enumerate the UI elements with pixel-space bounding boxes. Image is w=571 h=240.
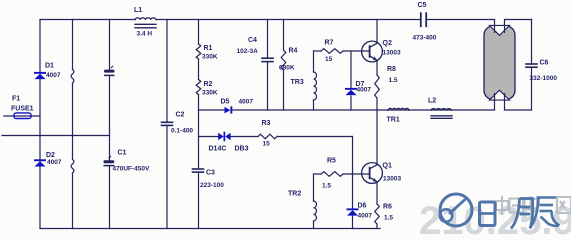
wire line2 corner down bbox=[352, 137, 354, 175]
diode D1 bbox=[34, 72, 46, 79]
svg-text:473-400: 473-400 bbox=[413, 35, 437, 42]
lamp top filament notch bbox=[490, 25, 510, 35]
svg-text:C6: C6 bbox=[540, 60, 549, 67]
svg-text:1.5: 1.5 bbox=[389, 77, 398, 84]
svg-text:0.1-400: 0.1-400 bbox=[171, 128, 193, 135]
wire top bus left bbox=[40, 19, 135, 21]
svg-text:D14C: D14C bbox=[209, 146, 227, 153]
svg-text:D6: D6 bbox=[358, 203, 367, 210]
wire R6 to bottom bus bbox=[376, 224, 378, 229]
inductor TR1 winding bbox=[388, 108, 409, 110]
watermark logo circle bbox=[440, 194, 472, 226]
svg-text:TR3: TR3 bbox=[291, 79, 304, 86]
diode D5 bbox=[225, 106, 233, 113]
svg-text:DB3: DB3 bbox=[235, 146, 249, 153]
capacitor electrolytic upper plates bbox=[104, 66, 115, 76]
wire AC line 2 bbox=[2, 135, 110, 137]
wire C2 vertical bbox=[166, 20, 168, 123]
svg-text:330K: 330K bbox=[202, 90, 218, 97]
svg-text:15: 15 bbox=[325, 56, 333, 63]
capacitor C2 plates bbox=[162, 121, 173, 123]
resistor R6 zigzag bbox=[375, 204, 380, 224]
diode D7 bbox=[345, 88, 357, 95]
capacitor C4 plates bbox=[262, 57, 273, 59]
inductor L2 winding bbox=[431, 109, 451, 111]
wire mid rail y110 right bbox=[505, 109, 532, 111]
svg-text:15: 15 bbox=[263, 141, 271, 148]
wire D7 branch bbox=[350, 51, 352, 88]
wire Q1 base line bbox=[314, 173, 322, 175]
resistor R1 zigzag bbox=[196, 44, 201, 59]
wire D6 branch bbox=[352, 174, 354, 208]
svg-text:R2: R2 bbox=[204, 81, 213, 88]
svg-text:680K: 680K bbox=[279, 65, 295, 72]
inductor L2 core bars bbox=[431, 115, 452, 117]
svg-text:D1: D1 bbox=[45, 63, 54, 70]
svg-text:C4: C4 bbox=[248, 37, 257, 44]
svg-text:223-100: 223-100 bbox=[200, 182, 224, 189]
lamp pins bbox=[495, 20, 505, 111]
resistor R8 zigzag bbox=[375, 75, 380, 98]
svg-text:13003: 13003 bbox=[383, 50, 401, 57]
svg-text:Q2: Q2 bbox=[383, 40, 392, 47]
svg-text:C5: C5 bbox=[418, 2, 427, 9]
wire vertical x72.5 mid bbox=[72, 83, 74, 160]
wire fuse line bbox=[4, 115, 40, 117]
svg-text:L2: L2 bbox=[428, 98, 436, 105]
wire Q2 collector bbox=[376, 20, 378, 44]
wire R1R2C3 vertical x198.5 bbox=[198, 20, 200, 45]
wire line2 y136.5 bbox=[199, 136, 219, 138]
svg-text:1.5: 1.5 bbox=[384, 215, 393, 222]
wire vertical x109.5 segments bbox=[109, 20, 111, 70]
svg-text:R6: R6 bbox=[383, 204, 392, 211]
wire R8 to rail bbox=[376, 98, 378, 110]
inductor L1 core bars bbox=[135, 23, 156, 25]
diode D2 bbox=[34, 159, 46, 166]
svg-text:C1: C1 bbox=[118, 150, 127, 157]
wire mid rail y110 left bbox=[199, 109, 225, 111]
resistor R2 zigzag bbox=[196, 80, 201, 95]
watermark blue 辰 bbox=[532, 198, 560, 227]
transistor Q1 bbox=[362, 163, 383, 184]
inductor TR3 winding bbox=[314, 72, 317, 100]
resistor R4 zigzag bbox=[281, 50, 286, 70]
svg-text:470UF-450V: 470UF-450V bbox=[113, 166, 151, 173]
svg-text:332-1000: 332-1000 bbox=[530, 75, 558, 82]
lamp tube body bbox=[484, 20, 515, 111]
svg-text:L1: L1 bbox=[134, 7, 142, 14]
svg-text:1.5: 1.5 bbox=[322, 183, 331, 190]
resistor R3 zigzag bbox=[258, 134, 277, 139]
svg-text:TR2: TR2 bbox=[288, 191, 301, 198]
wire C4 vertical bbox=[267, 20, 269, 59]
diode D6 bbox=[347, 208, 359, 215]
wire C6 vertical bbox=[531, 20, 533, 65]
wire Q1 emitter to R6 bbox=[376, 182, 378, 204]
svg-text:4007: 4007 bbox=[47, 159, 62, 166]
svg-text:R1: R1 bbox=[204, 45, 213, 52]
wire rail to Q1 collector bbox=[376, 110, 378, 165]
svg-text:4007: 4007 bbox=[239, 99, 254, 106]
capacitor C1 plates bbox=[104, 156, 115, 166]
watermark blue 日 bbox=[480, 202, 496, 226]
capacitor C5 plates bbox=[420, 13, 422, 26]
svg-text:R4: R4 bbox=[289, 48, 298, 55]
svg-text:13003: 13003 bbox=[383, 176, 401, 183]
fuse F1 body bbox=[14, 113, 31, 119]
watermark gray CJK 电 bbox=[525, 196, 538, 212]
svg-text:D5: D5 bbox=[221, 99, 230, 106]
svg-text:R5: R5 bbox=[327, 158, 336, 165]
inductor TR2 winding bbox=[314, 201, 317, 221]
capacitor C3 plates bbox=[193, 168, 204, 170]
wire bottom bus bbox=[40, 228, 380, 230]
svg-text:330K: 330K bbox=[202, 54, 218, 61]
watermark gray CJK 网 bbox=[557, 197, 571, 213]
svg-text:R7: R7 bbox=[325, 40, 334, 47]
wire vertical x72.5 upper bbox=[72, 20, 74, 70]
svg-text:4007: 4007 bbox=[358, 213, 373, 220]
resistor R5 zigzag bbox=[321, 172, 343, 177]
wire left vertical x40 bbox=[39, 20, 41, 229]
wire R4 vertical bbox=[283, 20, 285, 51]
inductor L1 winding bbox=[135, 18, 156, 20]
svg-text:FUSE1: FUSE1 bbox=[11, 106, 34, 113]
wire TR3 branch bbox=[313, 51, 315, 72]
capacitor C6 plates bbox=[526, 63, 537, 65]
lamp bottom filament notch bbox=[490, 90, 510, 100]
svg-text:C3: C3 bbox=[206, 170, 215, 177]
svg-text:4007: 4007 bbox=[46, 72, 61, 79]
svg-text:F1: F1 bbox=[12, 96, 20, 103]
wire lamp right top jumper bbox=[505, 19, 532, 21]
svg-text:4007: 4007 bbox=[357, 87, 372, 94]
resistor squiggle lower x72 bbox=[71, 160, 74, 174]
transistor Q2 bbox=[362, 41, 383, 62]
wire top bus right of C5 bbox=[427, 19, 495, 21]
svg-text:102-3A: 102-3A bbox=[237, 48, 259, 55]
diac D14C DB3 bbox=[218, 132, 230, 142]
resistor squiggle upper x72 bbox=[71, 70, 74, 84]
svg-text:R3: R3 bbox=[262, 120, 271, 127]
svg-text:3.4 H: 3.4 H bbox=[137, 31, 153, 38]
svg-text:Q1: Q1 bbox=[383, 163, 392, 170]
wire TR2 branch bbox=[313, 174, 315, 201]
resistor R7 zigzag bbox=[321, 49, 343, 54]
svg-text:D2: D2 bbox=[46, 152, 55, 159]
watermark gray CJK 中 bbox=[496, 196, 508, 215]
wire mid rail y110 main bbox=[232, 109, 495, 111]
wire top bus mid bbox=[156, 19, 420, 21]
svg-text:TR1: TR1 bbox=[387, 117, 400, 124]
wire vertical x72.5 lower bbox=[72, 173, 74, 229]
svg-text:C2: C2 bbox=[176, 112, 185, 119]
svg-text:R8: R8 bbox=[387, 66, 396, 73]
watermark blue 月 bbox=[511, 199, 533, 229]
wire Q2 emitter to R8 bbox=[376, 60, 378, 75]
watermark gray CJK 国 bbox=[510, 199, 524, 213]
wire R7 base line bbox=[314, 50, 322, 52]
